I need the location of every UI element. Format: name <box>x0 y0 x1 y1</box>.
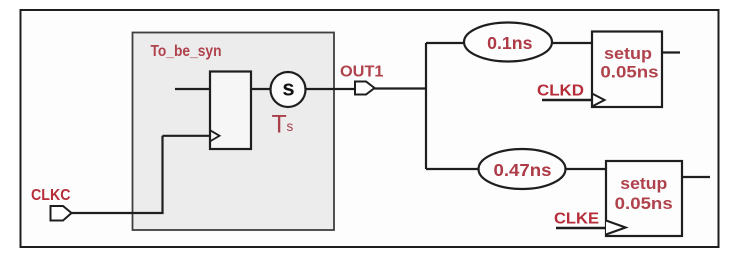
svg-text:CLKC: CLKC <box>31 187 71 204</box>
setup box D <box>592 32 662 108</box>
wire D input <box>175 88 210 90</box>
svg-text:CLKD: CLKD <box>537 83 584 100</box>
clock triangle of setup box D <box>592 94 605 107</box>
wire clock horizontal into flip-flop <box>163 135 211 137</box>
svg-text:setup: setup <box>604 44 652 63</box>
wire CLKE <box>556 227 606 229</box>
delay ellipse 0.47ns <box>479 149 566 189</box>
clock triangle of setup box E <box>606 221 626 235</box>
svg-text:s: s <box>282 75 294 100</box>
svg-text:0.05ns: 0.05ns <box>600 63 658 82</box>
setup box E <box>606 161 682 236</box>
svg-text:CLKE: CLKE <box>554 211 599 228</box>
svg-text:s: s <box>287 119 294 134</box>
wire output E <box>682 176 710 178</box>
svg-text:OUT1: OUT1 <box>340 64 384 81</box>
svg-text:setup: setup <box>620 174 667 193</box>
flip-flop U1 <box>210 72 251 150</box>
wire synchronizer to OUT1 pin <box>306 88 356 90</box>
input pin CLKC <box>51 206 72 221</box>
wire CLKC horizontal <box>71 212 164 214</box>
svg-text:T: T <box>272 110 287 138</box>
output pin OUT1 <box>355 82 375 95</box>
wire output D <box>662 51 680 53</box>
svg-text:0.47ns: 0.47ns <box>494 160 552 180</box>
svg-text:To_be_syn: To_be_syn <box>151 43 222 60</box>
wire ellipse to setup box E <box>566 168 607 170</box>
clock triangle of flip-flop <box>210 130 220 141</box>
svg-text:0.1ns: 0.1ns <box>487 33 533 53</box>
wire clock vertical <box>161 136 163 213</box>
wire CLKD <box>542 99 592 101</box>
delay ellipse 0.1ns <box>464 23 552 62</box>
module box To_be_syn <box>133 33 335 231</box>
wire branch vertical <box>425 43 427 169</box>
svg-text:0.05ns: 0.05ns <box>615 194 673 213</box>
wire top branch to delay ellipse <box>426 42 465 44</box>
wire bottom branch to delay ellipse <box>426 168 479 170</box>
wire OUT1 to branch node <box>375 87 427 89</box>
wire ellipse to setup box D <box>552 42 592 44</box>
wire flip-flop Q to synchronizer <box>251 88 270 90</box>
synchronizer circle S <box>271 72 306 107</box>
